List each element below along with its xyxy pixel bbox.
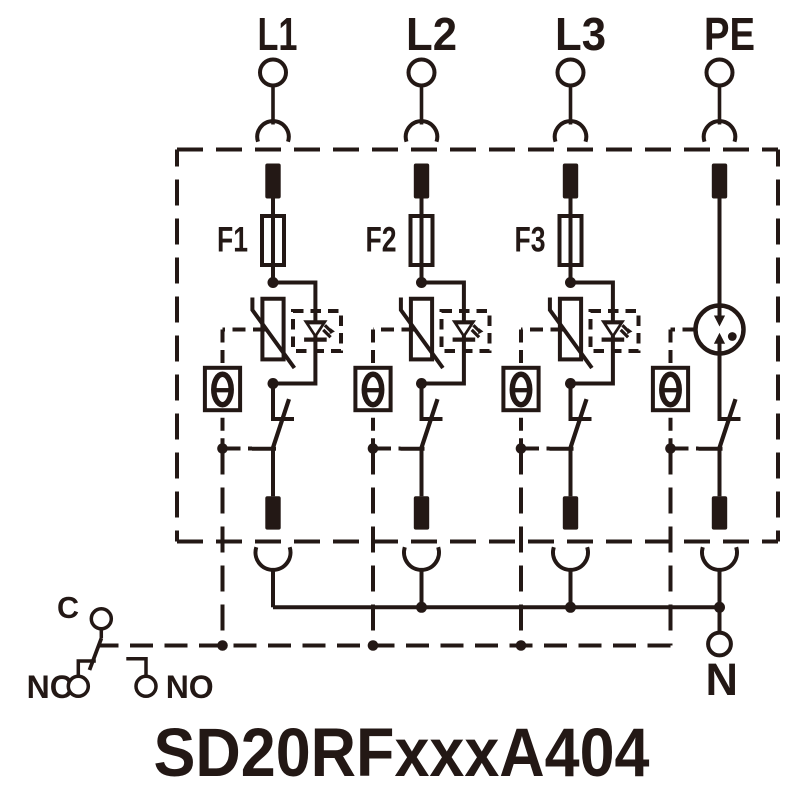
wire L1 block to node A1 (271, 199, 275, 283)
node A2 junction dot (416, 277, 427, 288)
thermal linkage dashed vertical 1 down to remote line (221, 449, 225, 646)
thermal linkage dashed vertical 2 down to remote line (371, 449, 375, 646)
GDT upper arrow head (pointing down) (714, 316, 725, 327)
wire disconnector to bottom block column 1 (271, 448, 275, 496)
theta glyph ellipse 2 (364, 374, 381, 404)
thermal linkage dashed: junction to switch blade column 3 (521, 447, 550, 451)
thermal disconnector sensor box theta 1 (205, 368, 240, 410)
thermal linkage junction dot 4 (665, 443, 676, 454)
node B3 junction dot (565, 378, 576, 389)
wire PE terminal to plug arc (718, 85, 722, 125)
varistor RV2 body (411, 299, 432, 360)
terminal block bottom column 3 (563, 496, 578, 529)
svg-text:F1: F1 (217, 221, 248, 260)
remote line junction dot theta1 (217, 640, 228, 651)
LED diode triangle interior column 1 (309, 324, 321, 333)
terminal N circle (708, 633, 731, 656)
varistor RV1 body (262, 299, 283, 360)
indicator branch wire (node A3 right, down through LED, back to node B3) (571, 283, 613, 384)
node A3 junction dot (565, 277, 576, 288)
terminal L2 circle (409, 60, 435, 86)
svg-text:L3: L3 (555, 8, 606, 60)
thermal disconnector sensor box theta 2 (355, 368, 390, 410)
enclosure dashed border right side (776, 150, 780, 542)
fuse F2 (411, 216, 433, 265)
wire L2 block to node A2 (420, 199, 424, 283)
svg-text:NC: NC (27, 669, 73, 705)
wire node B2 to disconnector (420, 384, 424, 420)
disconnector switch column 3: blade (570, 399, 586, 448)
varistor RV3 body (560, 299, 581, 360)
terminal L3 circle (558, 60, 584, 86)
thermal disconnector sensor box theta 3 (503, 368, 538, 410)
disconnector switch column 1: lower tick (252, 447, 276, 451)
wire bus to N terminal (718, 607, 722, 632)
theta glyph bar 3 (513, 388, 529, 392)
thermal linkage junction dot 3 (516, 443, 527, 454)
enclosure dashed border bottom side (177, 540, 778, 544)
thermal linkage dashed vertical 4 down to remote line (669, 449, 673, 646)
LED cathode bar column 1 (304, 338, 327, 342)
indicator branch wire (node A2 right, down through LED, back to node B2) (422, 283, 464, 384)
terminal block PE top (712, 164, 727, 199)
thermal linkage dashed: theta 1 up from corner (221, 330, 225, 368)
varistor RV3 disconnect strike (550, 298, 592, 369)
wire socket arc to bottom bus column 2 (420, 570, 424, 607)
GDT lower arrow head (pointing up) (714, 333, 725, 344)
plug arc L3 (top connector) (555, 121, 587, 142)
svg-text:SD20RFxxxA404: SD20RFxxxA404 (154, 714, 650, 791)
svg-text:N: N (706, 654, 739, 705)
enclosure dashed border left side (175, 150, 179, 542)
thermal linkage dashed: theta 1 corner to protected element (223, 328, 267, 332)
svg-text:NO: NO (166, 669, 214, 705)
socket arc bottom column 3 (553, 547, 588, 570)
terminal block L3 top (563, 164, 578, 199)
LED indicator dashed box column 1 (293, 311, 341, 351)
plug arc L1 (top connector) (257, 121, 289, 142)
wire node B3 to disconnector (569, 384, 573, 420)
disconnector switch column 1: blade (273, 399, 289, 448)
thermal linkage dashed: junction to switch blade column 4 (671, 447, 699, 451)
LED cathode bar column 3 (602, 338, 625, 342)
LED indicator dashed box column 2 (442, 311, 490, 351)
thermal linkage dashed: junction to switch blade column 2 (373, 447, 401, 451)
thermal linkage dashed vertical 3 down to remote line (519, 449, 523, 646)
disconnector switch column 3: lower tick (550, 447, 574, 451)
bus junction dot L2 (416, 602, 427, 613)
thermal disconnector sensor box theta 4 (653, 368, 688, 410)
thermal linkage dashed: theta 4 down to junction (669, 410, 673, 448)
thermal linkage dashed: junction to switch blade column 1 (223, 447, 253, 451)
wire L2 terminal to plug arc (420, 85, 424, 125)
terminal PE circle (707, 60, 733, 86)
wire node B1 to disconnector (271, 384, 275, 420)
terminal block bottom column 1 (265, 496, 280, 529)
LED arrow shafts column 1 (323, 325, 332, 337)
theta glyph bar 2 (365, 388, 381, 392)
thermal linkage dashed: theta 2 down to junction (371, 410, 375, 448)
LED cathode bar column 2 (453, 338, 476, 342)
NO terminal circle (136, 676, 156, 696)
LED diode triangle interior column 3 (607, 324, 619, 333)
wire socket arc to bottom bus column 3 (569, 570, 573, 607)
disconnector switch column 1: fixed contact tick (271, 417, 294, 421)
changeover contact blade (90, 639, 102, 671)
indicator branch wire (node A1 right, down through LED, back to node B1) (273, 283, 315, 384)
theta glyph bar 1 (215, 388, 231, 392)
disconnector switch column 3: fixed contact tick (569, 417, 592, 421)
wire C terminal to blade (100, 629, 104, 639)
bus junction dot N (714, 602, 725, 613)
remote signalling dashed line (669, 449, 673, 646)
LED arrow head column 2 (478, 328, 483, 334)
NC terminal circle (68, 676, 88, 696)
LED arrow head column 3 (627, 328, 632, 334)
wire L3 terminal to plug arc (569, 85, 573, 125)
svg-text:L1: L1 (258, 8, 298, 60)
wire disconnector to bottom block column 2 (420, 448, 424, 496)
remote signalling dashed line horizontal (99, 644, 671, 648)
thermal linkage dashed: theta 3 up from corner (519, 330, 523, 368)
LED arrow head column 1 (330, 328, 335, 334)
node B1 junction dot (268, 378, 279, 389)
terminal block bottom column 2 (414, 496, 429, 529)
remote contact C terminal circle (91, 609, 111, 629)
thermal linkage dashed: theta 2 up from corner (371, 330, 375, 368)
wire GDT to disconnector (718, 344, 722, 420)
LED diode triangle interior column 2 (458, 324, 470, 333)
NO contact leg (126, 659, 146, 676)
bottom bus wire L1..PE (273, 605, 720, 609)
theta glyph ellipse 1 (214, 374, 231, 404)
wire L3 block to node A3 (569, 199, 573, 283)
socket arc bottom column 1 (256, 547, 291, 570)
terminal L1 circle (260, 60, 286, 86)
thermal linkage junction dot 2 (368, 443, 379, 454)
disconnector switch column 4: fixed contact tick (718, 417, 741, 421)
theta glyph ellipse 3 (512, 374, 529, 404)
fuse F3 (560, 216, 582, 265)
gas discharge tube GDT circle (696, 306, 744, 354)
disconnector switch column 2: lower tick (401, 447, 425, 451)
thermal linkage dashed: theta 4 corner to protected element (671, 328, 696, 332)
disconnector switch column 2: blade (421, 399, 437, 448)
LED diode triangle column 1 (303, 320, 327, 338)
LED diode triangle column 2 (452, 320, 476, 338)
wire socket arc to bottom bus column 1 (271, 570, 275, 607)
wire disconnector to bottom block column 3 (569, 448, 573, 496)
NC contact leg (78, 661, 96, 676)
LED indicator dashed box column 3 (591, 311, 639, 351)
thermal linkage dashed: theta 2 corner to protected element (373, 328, 415, 332)
varistor RV1 disconnect strike (252, 298, 294, 369)
plug arc PE (top connector) (704, 121, 736, 142)
theta glyph bar 4 (663, 388, 679, 392)
thermal linkage junction dot 1 (217, 443, 228, 454)
enclosure dashed border top side (177, 148, 778, 152)
thermal linkage dashed: theta 3 down to junction (519, 410, 523, 448)
remote line junction dot theta2 (368, 640, 379, 651)
svg-text:C: C (57, 591, 79, 625)
socket arc bottom column 2 (404, 547, 439, 570)
GDT indicator dot (728, 332, 737, 341)
fuse F1 (262, 216, 284, 265)
theta glyph ellipse 4 (662, 374, 679, 404)
svg-text:F3: F3 (515, 221, 546, 260)
wire PE block to gas discharge tube (718, 199, 722, 317)
thermal linkage dashed: theta 4 up from corner (669, 330, 673, 368)
LED arrow shafts column 2 (472, 325, 481, 337)
disconnector switch column 4: lower tick (699, 447, 723, 451)
LED diode triangle column 3 (601, 320, 625, 338)
plug arc L2 (top connector) (406, 121, 438, 142)
wire L1 terminal to plug arc (271, 85, 275, 125)
terminal block L1 top (265, 164, 280, 199)
disconnector switch column 4: blade (719, 399, 735, 448)
terminal block bottom column 4 (712, 496, 727, 529)
disconnector switch column 2: fixed contact tick (420, 417, 443, 421)
bus junction dot L3 (565, 602, 576, 613)
wire disconnector to bottom block column 4 (718, 448, 722, 496)
svg-text:PE: PE (704, 8, 755, 60)
terminal block L2 top (414, 164, 429, 199)
wire socket arc to bottom bus column 4 (718, 570, 722, 607)
svg-text:L2: L2 (406, 8, 457, 60)
socket arc bottom column 4 (702, 547, 737, 570)
svg-text:F2: F2 (366, 221, 397, 260)
varistor RV2 disconnect strike (401, 298, 443, 369)
thermal linkage dashed: theta 3 corner to protected element (521, 328, 564, 332)
LED arrow shafts column 3 (621, 325, 630, 337)
node B2 junction dot (416, 378, 427, 389)
thermal linkage dashed: theta 1 down to junction (221, 410, 225, 448)
remote line junction dot theta3 (516, 640, 527, 651)
node A1 junction dot (268, 277, 279, 288)
